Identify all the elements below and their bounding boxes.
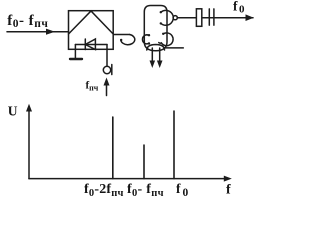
svg-text:f: f (226, 183, 231, 198)
svg-text:U: U (8, 103, 18, 118)
